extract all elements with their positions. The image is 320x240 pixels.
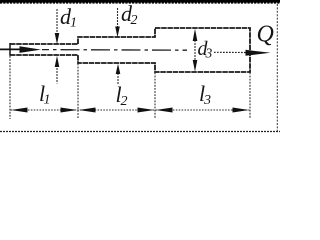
svg-text:Q: Q (257, 22, 274, 48)
svg-text:1: 1 (44, 93, 51, 108)
svg-text:2: 2 (131, 13, 138, 28)
svg-text:3: 3 (203, 93, 211, 108)
svg-text:2: 2 (121, 94, 128, 109)
svg-text:1: 1 (70, 16, 77, 31)
svg-text:3: 3 (205, 46, 213, 61)
